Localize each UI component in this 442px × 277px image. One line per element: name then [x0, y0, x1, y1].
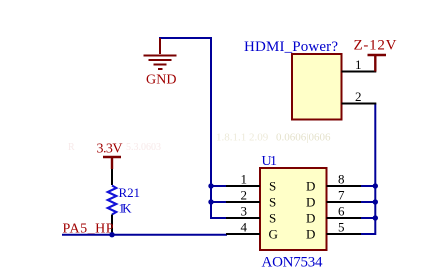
svg-text:S: S: [269, 211, 276, 226]
svg-text:R21: R21: [119, 185, 141, 200]
wire GND-net vertical down to U1 pins: [210, 37, 212, 219]
svg-text:D: D: [306, 195, 315, 210]
wire stub U1 pin 6: [361, 217, 376, 219]
connector pin 2 line: [342, 103, 377, 105]
junction at pin 6: [373, 215, 378, 220]
svg-text:D: D: [306, 179, 315, 194]
wire PA5_HP to U1 pin 4: [62, 234, 227, 236]
svg-text:D: D: [306, 227, 315, 242]
svg-text:8: 8: [338, 172, 345, 187]
svg-text:G: G: [269, 227, 278, 242]
junction at pin 8: [373, 183, 378, 188]
faint watermark row: [68, 132, 331, 154]
svg-text:5.3.0603: 5.3.0603: [126, 142, 161, 153]
svg-text:2: 2: [355, 89, 362, 104]
svg-text:7: 7: [338, 188, 345, 203]
svg-text:U1: U1: [262, 154, 278, 169]
junction resistor/wire: [109, 232, 114, 237]
svg-text:S: S: [269, 195, 276, 210]
svg-text:S: S: [269, 179, 276, 194]
power +3.3V symbol: [103, 157, 121, 169]
pin 3 line: [226, 217, 260, 219]
svg-text:GND: GND: [146, 73, 177, 88]
power Z-12V symbol: [368, 55, 387, 72]
wire stub to U1 pin 2: [211, 201, 227, 203]
wire stub U1 pin 5: [361, 233, 376, 235]
ground GND symbol: [144, 38, 177, 69]
wire GND horizontal: [159, 37, 212, 39]
connector J HDMI power body: [292, 54, 342, 120]
pin 2 line: [226, 201, 260, 203]
connector pin 1 line: [342, 71, 377, 73]
svg-text:3: 3: [241, 204, 248, 219]
svg-text:1K: 1K: [119, 201, 133, 216]
wire Z-12V net vertical: [374, 104, 376, 236]
wire stub U1 pin 7: [361, 201, 376, 203]
pin 1 line: [226, 185, 260, 187]
pin 4 line: [226, 233, 260, 235]
junction at pin 7: [373, 199, 378, 204]
svg-text:HDMI_Power?: HDMI_Power?: [244, 39, 338, 55]
svg-text:1: 1: [241, 172, 248, 187]
wire stub to U1 pin 1: [211, 185, 227, 187]
resistor R21: [111, 169, 113, 185]
junction at pin 1: [208, 183, 213, 188]
svg-text:Z-12V: Z-12V: [354, 38, 397, 54]
svg-text:R: R: [68, 142, 75, 153]
junction at pin 2: [208, 199, 213, 204]
pin 6 line: [327, 217, 362, 219]
svg-text:5: 5: [338, 220, 345, 235]
svg-text:2: 2: [241, 188, 248, 203]
svg-text:4: 4: [241, 220, 248, 235]
svg-text:6: 6: [338, 204, 345, 219]
wire stub to U1 pin 3: [211, 217, 227, 219]
pin 8 line: [327, 185, 362, 187]
svg-text:D: D: [306, 211, 315, 226]
svg-text:0.0606|0606: 0.0606|0606: [276, 132, 331, 144]
svg-text:1: 1: [355, 57, 362, 72]
svg-text:AON7534: AON7534: [262, 255, 324, 271]
svg-text:3.3V: 3.3V: [97, 142, 123, 157]
wire stub U1 pin 8: [361, 185, 376, 187]
pin 7 line: [327, 201, 362, 203]
op IC U1 body: [260, 168, 327, 250]
pin 5 line: [327, 233, 362, 235]
svg-text:1.8.1.1 2.09: 1.8.1.1 2.09: [216, 132, 269, 144]
